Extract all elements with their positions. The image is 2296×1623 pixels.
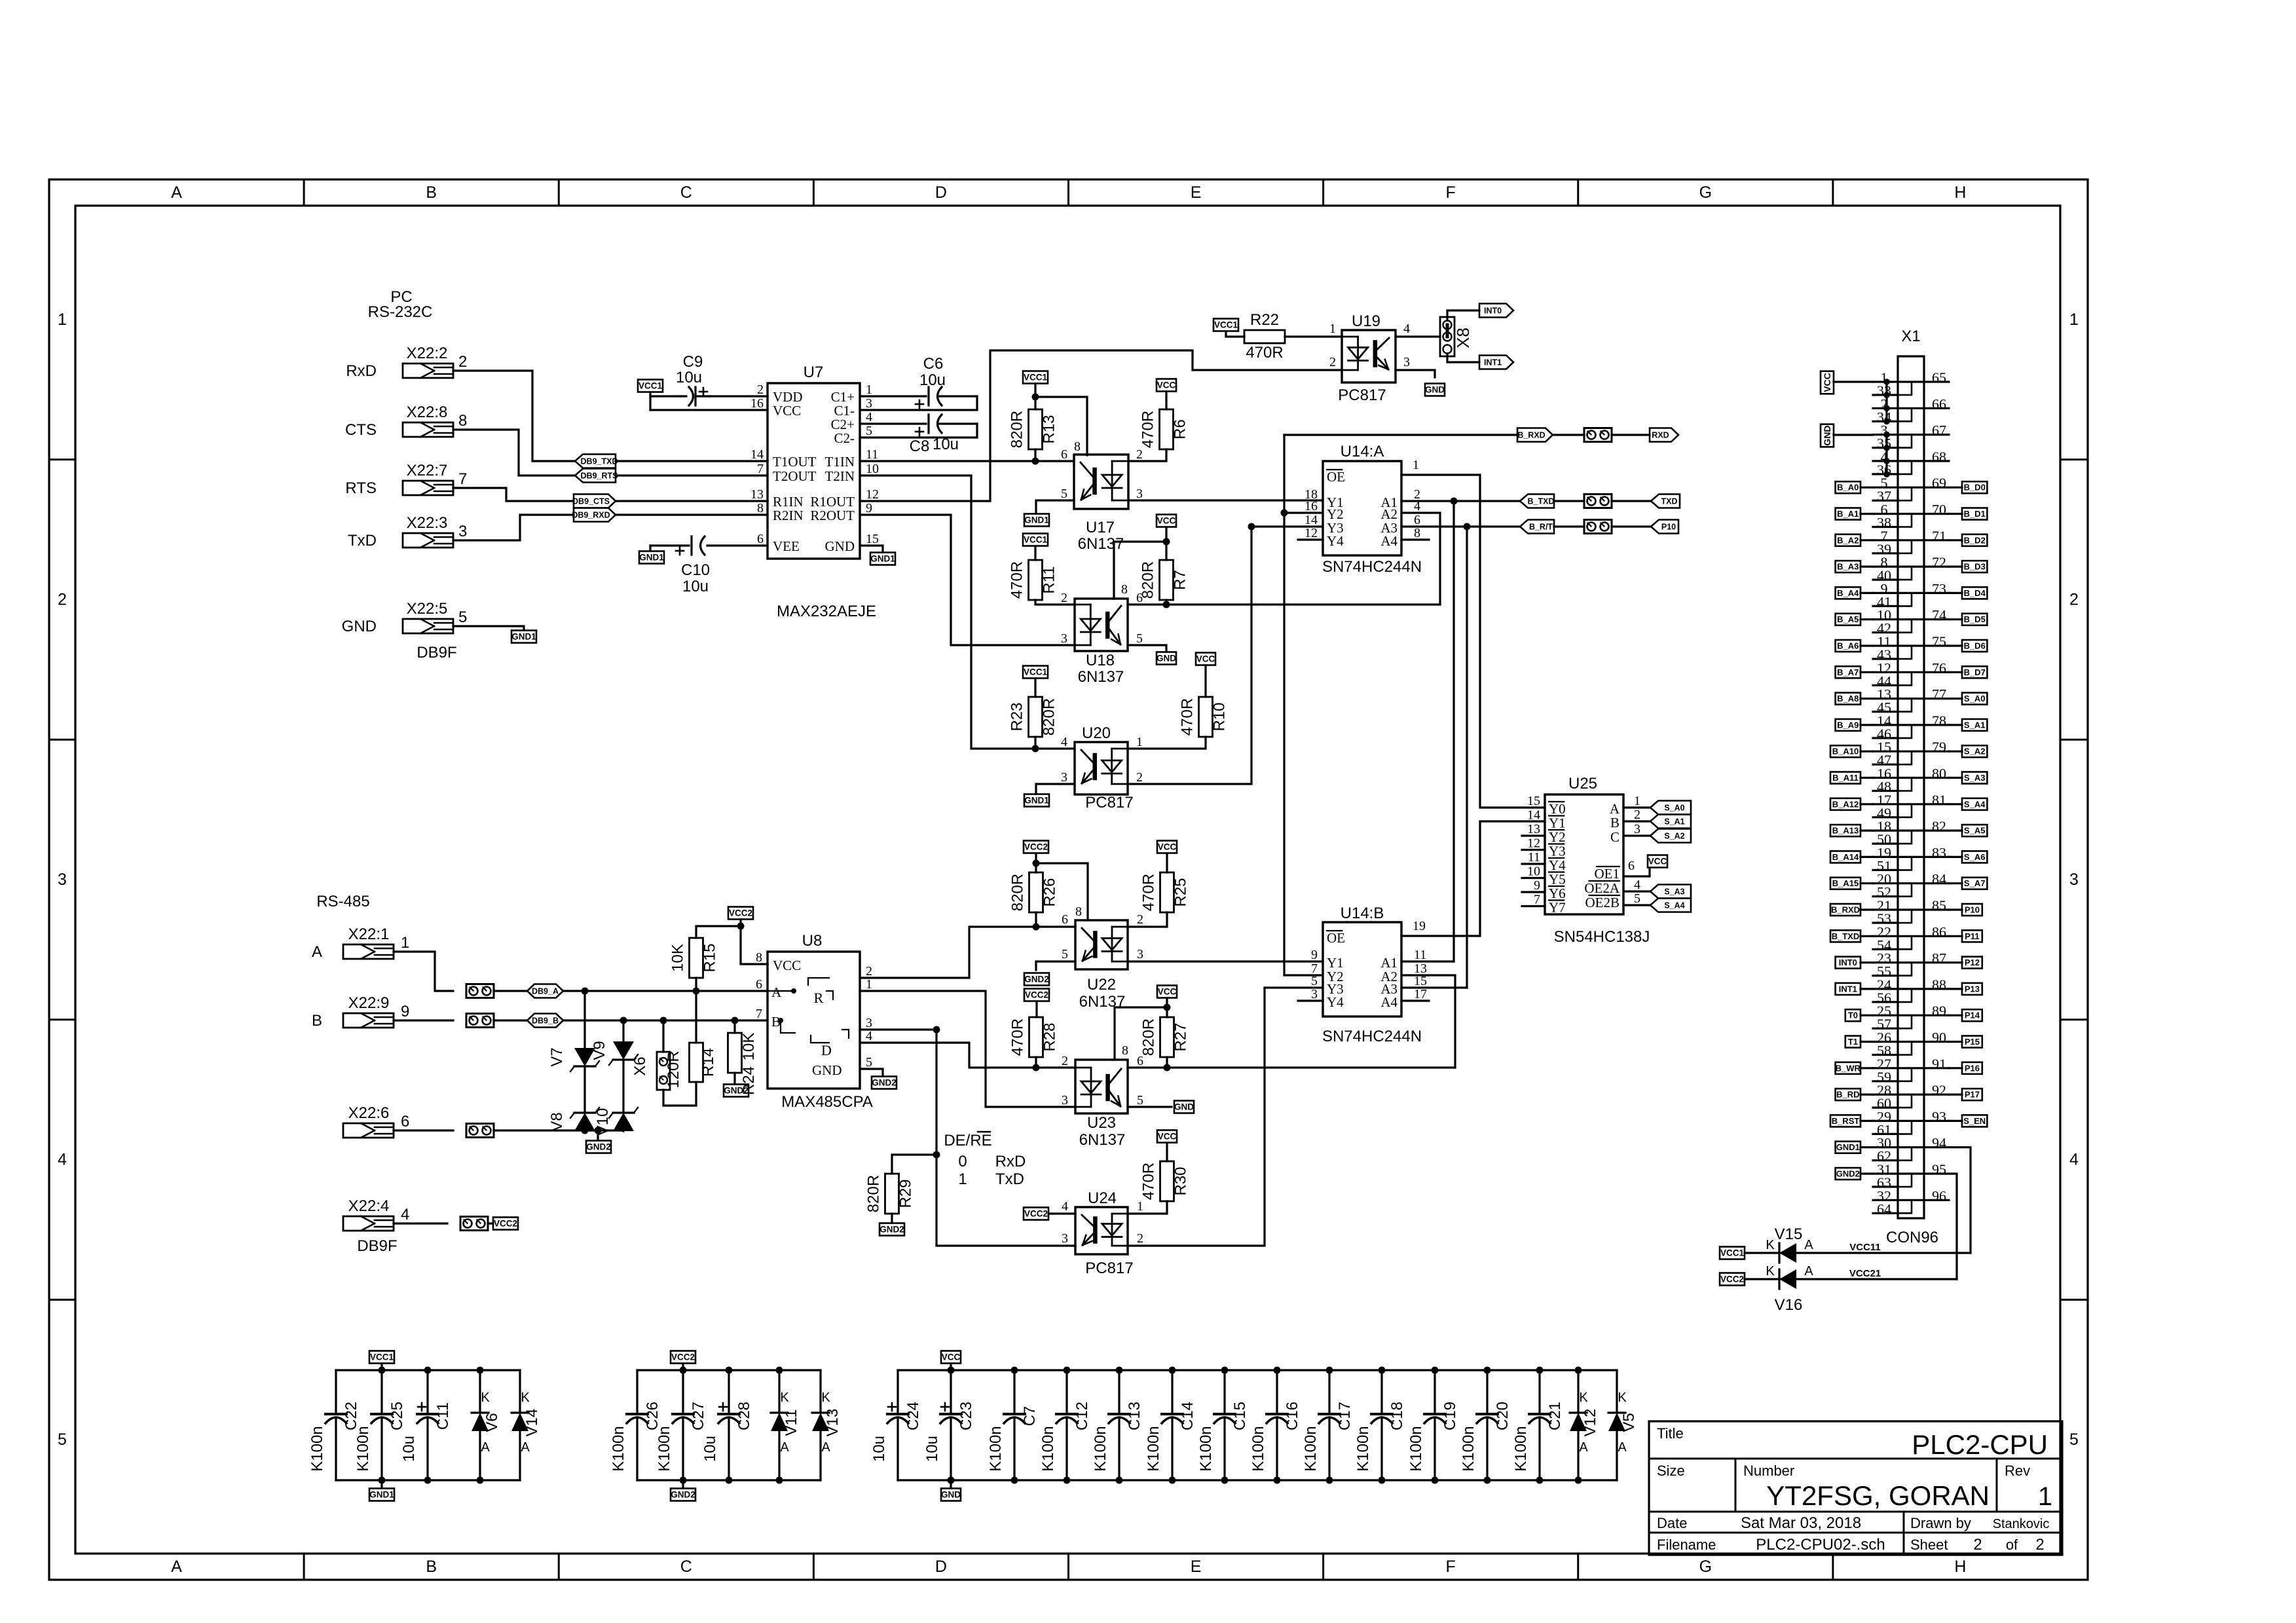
wire V9 to V10 [622, 1060, 624, 1113]
svg-text:V8: V8 [548, 1112, 566, 1131]
optocoupler U22 6N137 [1075, 920, 1128, 969]
svg-text:VCC1: VCC1 [1024, 535, 1048, 545]
svg-text:A: A [171, 1558, 182, 1576]
svg-text:6N137: 6N137 [1079, 1131, 1126, 1149]
svg-text:GND2: GND2 [1836, 1169, 1860, 1179]
X1 pin 62 elbow [1898, 1147, 1912, 1161]
svg-text:3: 3 [1634, 822, 1640, 836]
X1 pin 89 wire [1924, 1015, 1949, 1017]
wire A3 net down to U14:B A3 [1466, 527, 1468, 988]
X1 pin 96 wire [1924, 1199, 1949, 1201]
svg-text:VCC1: VCC1 [639, 381, 663, 391]
optocoupler U24 PC817 [1075, 1207, 1128, 1254]
svg-text:C27: C27 [690, 1402, 707, 1430]
svg-text:79: 79 [1932, 739, 1946, 755]
svg-text:65: 65 [1932, 369, 1946, 386]
svg-text:74: 74 [1932, 607, 1946, 624]
power GND2 at U22.5 [1024, 973, 1049, 986]
wire U25 Y4 stub [1522, 863, 1545, 865]
svg-text:S_A4: S_A4 [1964, 799, 1986, 809]
X1 pin 35 elbow [1898, 435, 1912, 448]
power GND2 below R29 [880, 1223, 904, 1236]
svg-text:B_D5: B_D5 [1964, 614, 1986, 624]
svg-text:88: 88 [1932, 977, 1946, 993]
svg-text:4: 4 [2069, 1151, 2079, 1169]
transceiver U8 MAX485CPA [768, 952, 860, 1089]
svg-text:B_A14: B_A14 [1832, 852, 1859, 862]
wire U7.6 VEE through C10 to GND1 [707, 544, 768, 546]
svg-text:VCC1: VCC1 [1024, 373, 1048, 382]
svg-text:19: 19 [1413, 919, 1426, 933]
jumper on X22:6 row [466, 1124, 494, 1138]
wire U25 Y6 stub [1522, 891, 1545, 893]
svg-text:TxD: TxD [348, 532, 377, 550]
svg-text:1: 1 [58, 310, 67, 329]
wire U14:A Y4 stub [1298, 538, 1323, 540]
X1 pin 5 wire [1873, 487, 1924, 489]
svg-text:VCC1: VCC1 [1720, 1248, 1745, 1258]
X1 pin 38 elbow [1898, 514, 1912, 527]
node B_TXD at X1 pin 22 [1830, 930, 1861, 942]
X1 pin 88 wire [1924, 988, 1949, 990]
power VCC above R7 [1157, 515, 1176, 527]
svg-text:VCC1: VCC1 [370, 1352, 394, 1362]
power VCC at X1 pin 1 [1821, 371, 1834, 394]
svg-text:D: D [935, 183, 947, 202]
svg-text:3: 3 [1137, 947, 1143, 961]
buffer U14:B SN74HC244N [1323, 922, 1401, 1017]
X1 pin 62 wire [1873, 1159, 1898, 1161]
node P10 at X1 pin 85 [1962, 904, 1982, 916]
wire VCC to R27 and U23.8 [1166, 998, 1168, 1007]
power VCC1 at C9 [638, 380, 663, 392]
svg-text:S_EN: S_EN [1963, 1116, 1986, 1126]
wire U17.3 to U14:A Y1 [1128, 499, 1323, 501]
svg-text:B_D4: B_D4 [1964, 588, 1986, 598]
wire U14:B Y4 stub [1298, 999, 1323, 1001]
svg-text:10K: 10K [740, 1033, 758, 1061]
svg-text:V15: V15 [1775, 1225, 1803, 1243]
X1 pin 81 wire [1924, 803, 1949, 805]
wire U23.6 to U14:B A2 net [1128, 1066, 1455, 1068]
svg-text:B_A15: B_A15 [1832, 878, 1859, 888]
svg-text:GND2: GND2 [1024, 975, 1049, 984]
svg-text:3: 3 [1403, 355, 1410, 369]
wire R26 to U22.6 [1035, 912, 1037, 927]
svg-text:S_A4: S_A4 [1664, 901, 1684, 910]
svg-text:K100n: K100n [354, 1426, 372, 1471]
svg-text:4: 4 [866, 410, 872, 424]
svg-text:VCC: VCC [1196, 654, 1215, 664]
X1 pin 63 elbow [1898, 1174, 1912, 1187]
svg-text:DB9_TXD: DB9_TXD [581, 457, 618, 466]
X1 pin 26 wire [1873, 1041, 1924, 1043]
svg-text:820R: 820R [1140, 1018, 1158, 1056]
wire A1 net down to U14:B A1 [1453, 501, 1454, 961]
junction DB9_B at X6 [660, 1017, 667, 1024]
svg-text:A4: A4 [1380, 994, 1398, 1010]
wire VCC1 to R23 [1034, 679, 1036, 697]
junction R28 at U23.2 [1033, 1064, 1040, 1072]
power VCC2 above U8 [728, 907, 753, 920]
capacitor C23 [950, 1370, 952, 1414]
X1 pin 59 elbow [1898, 1068, 1912, 1081]
wire VCC1 to V15 [1745, 1252, 1779, 1254]
svg-text:11: 11 [1528, 850, 1540, 865]
node S_A3 at X1 pin 80 [1962, 772, 1987, 784]
node B_A12 at X1 pin 17 [1830, 798, 1861, 810]
wire VCC1 to R13 and U17.8 [1034, 384, 1036, 409]
svg-text:470R: 470R [1009, 1018, 1027, 1056]
capacitor C16 [1276, 1370, 1278, 1414]
svg-text:VCC2: VCC2 [671, 1352, 695, 1362]
resistor R10 470R [1199, 697, 1213, 737]
power VCC2 above R26 [1024, 841, 1048, 853]
svg-text:INT0: INT0 [1839, 958, 1857, 967]
svg-text:B: B [426, 1558, 437, 1576]
svg-text:GND1: GND1 [511, 632, 536, 642]
wire U25 OE2A to S_A3 [1623, 890, 1650, 892]
X1 pin 90 wire [1924, 1041, 1949, 1043]
svg-text:1: 1 [1413, 458, 1419, 472]
wire U25 Y1 to U14:B OE [1401, 821, 1545, 936]
X1 pin 44 elbow [1898, 672, 1912, 685]
X1 pin 25 wire [1873, 1015, 1924, 1017]
svg-text:1: 1 [1634, 794, 1640, 808]
svg-text:R11: R11 [1041, 566, 1058, 593]
svg-text:K100n: K100n [1460, 1426, 1477, 1471]
svg-text:4: 4 [401, 1206, 409, 1223]
svg-text:R13: R13 [1041, 415, 1058, 443]
svg-text:10K: 10K [669, 944, 687, 972]
resistor R25 470R [1160, 872, 1174, 912]
svg-text:2: 2 [458, 353, 467, 371]
X1 pin 37 wire [1873, 500, 1898, 502]
svg-text:B_R/T: B_R/T [1529, 523, 1553, 532]
svg-text:C: C [680, 183, 692, 202]
svg-text:P11: P11 [1965, 931, 1979, 941]
svg-text:470R: 470R [1009, 561, 1026, 599]
resistor R13 820R [1029, 409, 1043, 449]
svg-text:A: A [521, 1440, 530, 1455]
svg-text:B: B [1610, 815, 1620, 830]
svg-text:Y1: Y1 [1549, 815, 1566, 831]
svg-text:2: 2 [1062, 1054, 1068, 1068]
svg-text:5: 5 [866, 1055, 872, 1070]
svg-text:C14: C14 [1179, 1402, 1196, 1430]
svg-text:5: 5 [58, 1430, 67, 1449]
X1 pin 23 wire [1873, 961, 1924, 963]
junction DB9_B at V9 [620, 1017, 627, 1024]
svg-text:S_A2: S_A2 [1664, 832, 1684, 841]
X1 pin 22 wire [1873, 935, 1924, 937]
node B_D4 at X1 pin 73 [1962, 587, 1987, 599]
wire U8.1 RE to U23.3 [860, 991, 1075, 1107]
svg-text:K: K [481, 1390, 490, 1405]
svg-text:V5: V5 [1620, 1413, 1638, 1432]
node B_A0 at X1 pin 5 [1836, 481, 1861, 493]
power VCC above R6 [1157, 379, 1176, 392]
capacitor C11 [426, 1370, 428, 1414]
svg-text:68: 68 [1932, 449, 1946, 465]
X1 pin 19 wire [1873, 856, 1924, 858]
capacitor C22 [335, 1370, 337, 1414]
svg-text:5: 5 [458, 608, 467, 626]
X1 pin 80 wire [1924, 777, 1949, 779]
svg-text:10u: 10u [676, 369, 702, 386]
svg-text:10: 10 [1527, 865, 1540, 879]
svg-text:VCC: VCC [1822, 373, 1832, 392]
X1 pin 24 wire [1873, 988, 1924, 990]
svg-text:96: 96 [1932, 1187, 1946, 1204]
svg-text:470R: 470R [1246, 344, 1283, 362]
X1 pin 20 wire [1873, 882, 1924, 884]
svg-text:K: K [1579, 1390, 1588, 1405]
svg-text:GND2: GND2 [586, 1142, 611, 1152]
svg-text:R6: R6 [1172, 419, 1189, 439]
net flag DB9__A [527, 984, 563, 998]
capacitor C27 [682, 1370, 684, 1414]
svg-text:TXD: TXD [1661, 497, 1678, 506]
wire B_RXD to U14:B Y2 [1284, 513, 1323, 975]
svg-text:2: 2 [1137, 1231, 1143, 1246]
wire U17.5 to GND1 [1036, 500, 1074, 513]
svg-text:VCC: VCC [1157, 516, 1176, 526]
svg-text:B_A10: B_A10 [1832, 747, 1859, 756]
svg-text:OE2A: OE2A [1584, 880, 1620, 896]
svg-text:S_A7: S_A7 [1964, 878, 1986, 888]
svg-text:V10: V10 [594, 1108, 612, 1136]
junction VCC/R7/U18.8 [1163, 538, 1170, 546]
net flag P10 [1651, 520, 1678, 534]
svg-text:X22:9: X22:9 [348, 994, 390, 1012]
svg-text:T2IN: T2IN [825, 468, 855, 484]
svg-text:C25: C25 [388, 1402, 406, 1430]
svg-text:75: 75 [1932, 633, 1946, 650]
svg-text:GND: GND [812, 1062, 842, 1078]
svg-text:70: 70 [1932, 502, 1946, 518]
X1 pin 56 wire [1873, 1001, 1898, 1003]
capacitor C12 [1065, 1370, 1067, 1414]
svg-text:GND: GND [1157, 654, 1176, 663]
X1 pin 57 wire [1873, 1028, 1898, 1030]
svg-text:2: 2 [757, 382, 764, 397]
wire B row to R24 [733, 1020, 735, 1033]
svg-text:VCC2: VCC2 [1024, 842, 1048, 852]
svg-text:B_A5: B_A5 [1837, 614, 1859, 624]
svg-text:16: 16 [750, 396, 764, 411]
wire U25 Y2 stub [1522, 834, 1545, 836]
svg-text:Y4: Y4 [1327, 994, 1344, 1010]
wire U25 A to S_A0 [1623, 806, 1650, 808]
X1 pin 4 wire [1873, 460, 1924, 462]
power GND1 at U7.15 [870, 553, 895, 565]
svg-text:R: R [814, 990, 824, 1006]
svg-text:10: 10 [866, 462, 879, 476]
svg-text:6: 6 [1136, 591, 1143, 605]
svg-text:C18: C18 [1388, 1402, 1406, 1430]
wire VCC2 to V16 [1745, 1278, 1779, 1280]
svg-text:GND: GND [825, 538, 855, 554]
svg-text:S_A0: S_A0 [1964, 694, 1986, 703]
svg-text:GND: GND [1174, 1102, 1194, 1112]
svg-text:V11: V11 [783, 1409, 800, 1436]
power GND at X1 pin 3 [1821, 424, 1834, 447]
svg-text:SN74HC244N: SN74HC244N [1322, 1028, 1422, 1045]
wire VCC to R30 [1166, 1143, 1168, 1161]
junction VCC2/R15/U8.VCC [737, 923, 745, 930]
X1 pin 36 wire [1873, 473, 1898, 475]
svg-text:B_D0: B_D0 [1964, 483, 1986, 493]
node B_A4 at X1 pin 9 [1836, 587, 1861, 599]
svg-text:K100n: K100n [1197, 1426, 1215, 1471]
net flag DB9__RTS [575, 469, 616, 483]
wire U7.15 GND to GND1 [860, 546, 883, 552]
svg-text:Y2: Y2 [1549, 829, 1566, 845]
X1 pin 66 wire [1924, 407, 1949, 409]
X1 pin 60 wire [1873, 1106, 1898, 1108]
power GND1 at C10 [639, 551, 664, 564]
power VCC at U25 OE1 [1648, 855, 1667, 868]
wire jumper to DB9_B flag [494, 1019, 527, 1021]
wire VCC to X1 pins 1-34 [1834, 381, 1873, 382]
svg-text:5: 5 [1062, 947, 1068, 961]
wire R29 to GND2 [891, 1214, 893, 1223]
svg-text:C8: C8 [910, 438, 930, 455]
svg-text:VCC: VCC [1157, 381, 1176, 390]
svg-text:8: 8 [1121, 582, 1128, 597]
svg-text:S_A2: S_A2 [1964, 747, 1986, 756]
X1 pin 40 wire [1873, 578, 1898, 580]
node B_A7 at X1 pin 12 [1836, 666, 1861, 678]
node P12 at X1 pin 87 [1962, 957, 1982, 969]
svg-text:B_A4: B_A4 [1837, 588, 1859, 598]
wire R10 to U20.1 [1128, 737, 1206, 749]
svg-text:S_A1: S_A1 [1664, 817, 1684, 827]
power VCC1 above R11 [1023, 534, 1048, 546]
X1 pin 34 elbow [1898, 408, 1912, 421]
node S_A4 at X1 pin 81 [1962, 798, 1987, 810]
jumper on P10 net [1584, 520, 1612, 534]
diode V5 [1616, 1370, 1618, 1413]
X1 pin 16 wire [1873, 777, 1924, 779]
svg-text:G: G [1699, 1558, 1712, 1576]
svg-text:Y0: Y0 [1549, 801, 1566, 817]
svg-text:C17: C17 [1336, 1402, 1354, 1430]
svg-text:3: 3 [1061, 631, 1067, 646]
X1 pin 21 wire [1873, 908, 1924, 910]
svg-text:4: 4 [1403, 322, 1410, 336]
wire DB9_TXD to U7.14 [616, 460, 768, 462]
svg-text:94: 94 [1932, 1135, 1946, 1151]
svg-text:X22:4: X22:4 [348, 1197, 390, 1215]
svg-text:VCC11: VCC11 [1849, 1242, 1881, 1253]
wire U25 C to S_A2 [1623, 834, 1650, 836]
X1 pin 61 elbow [1898, 1121, 1912, 1134]
svg-text:A: A [171, 183, 182, 202]
wire VCC to R6 [1165, 392, 1167, 409]
svg-text:RS-485: RS-485 [316, 893, 369, 910]
junction R23 bottom [1032, 745, 1039, 753]
svg-text:71: 71 [1932, 528, 1946, 544]
svg-text:3: 3 [866, 396, 872, 411]
jumper on RXD net [1584, 428, 1612, 442]
svg-text:P10: P10 [1965, 905, 1980, 915]
wire U20.2 to U14:A Y3 net [1128, 527, 1251, 784]
svg-text:67: 67 [1932, 422, 1946, 439]
wire TxD to DB9_RXD [453, 515, 574, 540]
node P15 at X1 pin 90 [1962, 1036, 1982, 1048]
svg-text:P14: P14 [1965, 1011, 1980, 1020]
svg-text:R27: R27 [1172, 1022, 1190, 1051]
X1 pin 55 wire [1873, 975, 1898, 977]
svg-text:K100n: K100n [656, 1426, 673, 1471]
node B_A14 at X1 pin 19 [1830, 851, 1861, 863]
wire DE/RE net down to U24.3 [936, 1030, 1075, 1246]
wire U14:A A4 stub [1401, 538, 1429, 540]
X1 pin 84 wire [1924, 882, 1949, 884]
node P16 at X1 pin 91 [1962, 1062, 1982, 1074]
svg-text:VCC2: VCC2 [1024, 1209, 1048, 1219]
buffer U14:A SN74HC244N [1323, 461, 1401, 555]
svg-text:470R: 470R [1140, 1163, 1158, 1200]
X1 pin 93 wire [1924, 1120, 1949, 1122]
svg-text:4: 4 [866, 1029, 872, 1043]
svg-text:77: 77 [1932, 686, 1946, 703]
svg-text:B_D2: B_D2 [1964, 535, 1986, 545]
svg-text:C21: C21 [1546, 1402, 1564, 1430]
svg-text:66: 66 [1932, 396, 1946, 412]
svg-text:3: 3 [1062, 1093, 1068, 1108]
wire U7.10 T2IN to U20.4 [860, 476, 1075, 749]
svg-text:V13: V13 [824, 1409, 842, 1437]
svg-text:VCC1: VCC1 [1214, 320, 1238, 330]
X1 pin 49 wire [1873, 816, 1898, 818]
wire R15 bottom to A row [695, 978, 697, 991]
svg-text:K: K [1766, 1264, 1775, 1278]
svg-text:B_A0: B_A0 [1837, 483, 1859, 493]
capacitor C18 [1380, 1370, 1382, 1414]
svg-text:U18: U18 [1086, 652, 1115, 669]
svg-text:1: 1 [2038, 1482, 2052, 1511]
X1 pin 7 wire [1873, 539, 1924, 541]
svg-text:80: 80 [1932, 766, 1946, 782]
svg-text:Y6: Y6 [1549, 886, 1566, 901]
svg-text:B_D6: B_D6 [1964, 641, 1986, 651]
node B_D3 at X1 pin 72 [1962, 561, 1987, 572]
junction R27 bottom [1164, 1064, 1171, 1072]
svg-text:14: 14 [1527, 808, 1540, 823]
svg-text:C7: C7 [1021, 1406, 1039, 1427]
node P14 at X1 pin 89 [1962, 1009, 1982, 1021]
wire B_TXD to jumper [1554, 500, 1584, 502]
X1 pin 33 wire [1873, 394, 1898, 396]
net flag S__A0 [1650, 801, 1691, 815]
optocoupler U18 6N137 [1075, 599, 1128, 651]
svg-text:GND: GND [941, 1490, 961, 1500]
svg-text:U14:A: U14:A [1341, 443, 1384, 460]
wire C8 to C2- [939, 422, 977, 424]
X1 pin 6 wire [1873, 513, 1924, 515]
svg-text:E: E [1191, 1558, 1202, 1576]
svg-text:GND2: GND2 [872, 1078, 897, 1088]
svg-text:C19: C19 [1441, 1402, 1459, 1430]
svg-text:P15: P15 [1965, 1037, 1980, 1047]
X1 pin 1 wire [1873, 381, 1924, 382]
svg-text:820R: 820R [1041, 698, 1058, 736]
svg-text:9: 9 [1311, 948, 1318, 962]
wire U14:A Y3 stub [1251, 525, 1323, 527]
